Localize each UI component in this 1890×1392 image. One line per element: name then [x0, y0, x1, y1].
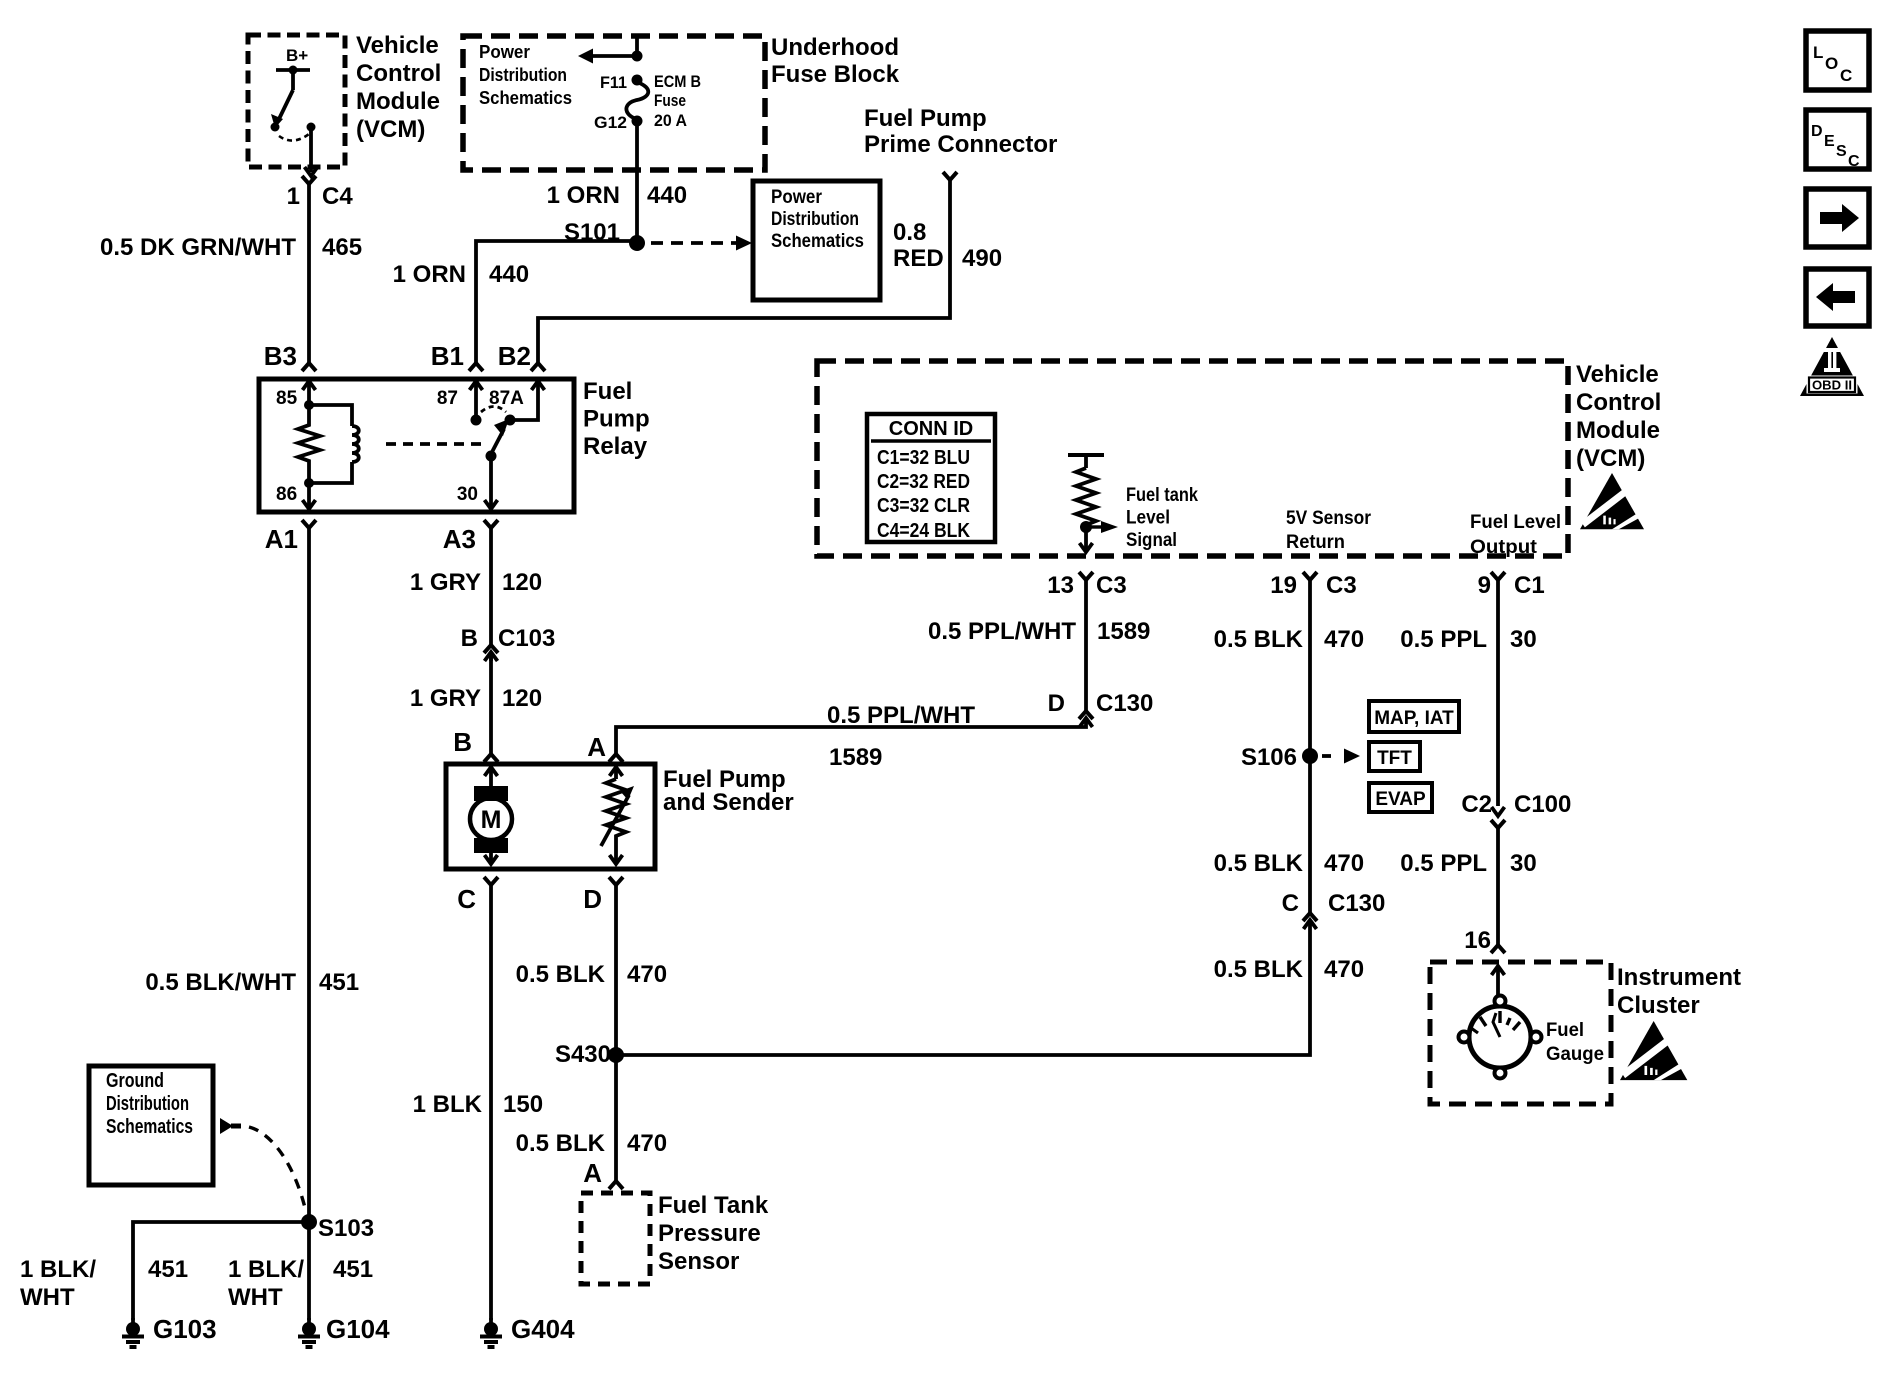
svg-text:0.5 BLK: 0.5 BLK — [1214, 850, 1304, 877]
svg-text:87A: 87A — [489, 388, 524, 409]
svg-text:Fuse Block: Fuse Block — [771, 61, 900, 88]
svg-text:TFT: TFT — [1377, 748, 1412, 769]
label 1 BLK/WHT 451 (right) — [228, 1256, 373, 1311]
connector fork 19 C3 — [1303, 572, 1317, 580]
svg-text:19: 19 — [1270, 572, 1297, 599]
label B2 — [498, 341, 531, 371]
wire 0.5 BLK 470 (S430 to C C130) — [616, 920, 1310, 1055]
connector fork A1 — [302, 520, 316, 528]
svg-text:1589: 1589 — [829, 744, 882, 771]
label 86 — [276, 484, 297, 505]
power distribution schematics text — [771, 187, 864, 252]
svg-text:C3=32 CLR: C3=32 CLR — [877, 495, 970, 517]
svg-text:Fuel Pump: Fuel Pump — [864, 105, 987, 132]
relay pin 85 arrow — [303, 381, 316, 405]
connector fork A3 — [484, 520, 498, 528]
inline connector B C103 — [484, 645, 498, 661]
connector fork B2 — [531, 363, 545, 371]
underhood fuse block title — [771, 34, 900, 88]
svg-text:S103: S103 — [318, 1215, 374, 1242]
svg-text:B1: B1 — [431, 341, 464, 371]
OBD II icon — [1800, 337, 1864, 396]
fuel tank pressure sensor title — [658, 1192, 769, 1275]
svg-text:C103: C103 — [498, 625, 555, 652]
svg-text:Pressure: Pressure — [658, 1220, 761, 1247]
connector fork pin 16 — [1491, 945, 1505, 953]
wire into fuse from top — [635, 36, 639, 58]
svg-text:G12: G12 — [594, 113, 627, 132]
B+ label — [286, 46, 308, 65]
svg-text:C130: C130 — [1096, 690, 1153, 717]
inline connector D C130 — [1079, 711, 1093, 727]
label 1 BLK/WHT 451 (left) — [20, 1256, 188, 1311]
svg-text:120: 120 — [502, 685, 542, 712]
relay switch blade (30 to 87A) — [486, 415, 516, 462]
svg-text:D: D — [583, 884, 602, 914]
relay coil resistor (85-86) — [298, 400, 320, 488]
label 87 — [437, 388, 458, 409]
svg-text:451: 451 — [333, 1256, 373, 1283]
connector fork D at fuel pump — [609, 877, 623, 885]
label 30 — [457, 484, 478, 505]
svg-text:C: C — [1840, 66, 1852, 85]
svg-text:D: D — [1811, 123, 1823, 140]
connector fork B3 — [302, 363, 316, 371]
pump pin A arrow — [610, 767, 623, 779]
wire 0.5 BLK/WHT 451 — [307, 528, 311, 1222]
svg-text:C130: C130 — [1328, 890, 1385, 917]
fuse name ECM B Fuse 20 A — [654, 72, 701, 130]
connector fork B1 — [469, 363, 483, 371]
wire 0.5 PPL/WHT 1589 (horizontal) — [616, 719, 1086, 754]
relay title — [583, 378, 650, 460]
svg-text:A: A — [583, 1158, 602, 1188]
fuel gauge — [1459, 996, 1542, 1079]
ground G103 — [122, 1318, 144, 1347]
forward arrow icon — [1806, 189, 1869, 247]
svg-text:470: 470 — [627, 1130, 667, 1157]
splice S101 — [629, 235, 645, 251]
label G404 — [511, 1314, 575, 1344]
svg-text:F11: F11 — [600, 73, 627, 92]
label S103 — [318, 1215, 374, 1242]
wire 1 ORN 440 (S101 to relay B1) — [476, 241, 637, 363]
label 0.5 DK GRN/WHT 465 — [100, 234, 362, 261]
label C (pump pin) — [457, 884, 476, 914]
svg-text:B2: B2 — [498, 341, 531, 371]
svg-text:0.5 PPL/WHT: 0.5 PPL/WHT — [928, 618, 1076, 645]
svg-text:30: 30 — [1510, 626, 1537, 653]
svg-text:C: C — [1282, 890, 1299, 917]
connector fork 9 C1 — [1491, 572, 1505, 580]
splice S106 — [1302, 748, 1318, 764]
svg-text:30: 30 — [457, 484, 478, 505]
EVAP reference box — [1369, 783, 1432, 812]
wire 0.5 BLK 470 (pump D to S430) — [614, 885, 618, 1181]
pump pin B arrow — [485, 767, 498, 787]
ESD symbol at instrument cluster — [1620, 1021, 1687, 1080]
svg-text:1 BLK: 1 BLK — [413, 1091, 483, 1118]
svg-text:B+: B+ — [286, 46, 308, 65]
svg-text:5V Sensor: 5V Sensor — [1286, 508, 1372, 529]
power distribution schematics box — [753, 181, 880, 300]
splice S103 — [301, 1214, 317, 1230]
wire 0.5 BLK 470 (C130 to VCM 19 C3) — [1308, 580, 1312, 913]
cluster pin 16 arrow — [1492, 966, 1505, 1000]
svg-text:WHT: WHT — [20, 1284, 75, 1311]
svg-text:Fuel: Fuel — [1546, 1020, 1584, 1041]
svg-text:EVAP: EVAP — [1375, 789, 1426, 810]
label S430 — [555, 1041, 611, 1068]
svg-text:20 A: 20 A — [654, 111, 687, 130]
label 0.5 BLK/WHT 451 — [145, 969, 359, 996]
svg-text:9: 9 — [1478, 572, 1491, 599]
MAP, IAT reference box — [1369, 701, 1459, 732]
connector fork B at fuel pump — [484, 754, 498, 762]
svg-text:470: 470 — [1324, 850, 1364, 877]
svg-text:87: 87 — [437, 388, 458, 409]
connector fork A at pressure sensor — [609, 1181, 623, 1189]
svg-text:E: E — [1824, 133, 1835, 150]
svg-text:S106: S106 — [1241, 744, 1297, 771]
vehicle control module (VCM) box, right — [817, 361, 1568, 556]
label 0.5 BLK 470 (above S106) — [1214, 626, 1364, 653]
ESD symbol at VCM — [1580, 473, 1644, 529]
svg-text:Fuse: Fuse — [654, 91, 686, 110]
instrument cluster box — [1430, 962, 1611, 1104]
relay coil winding (parallel branch) — [309, 405, 359, 483]
svg-text:A3: A3 — [443, 524, 476, 554]
ground G404 — [480, 1318, 502, 1347]
ground G104 — [298, 1318, 320, 1347]
svg-text:Signal: Signal — [1126, 530, 1177, 551]
svg-text:Sensor: Sensor — [658, 1248, 739, 1275]
label 1 ORN 440 (lower) — [393, 261, 529, 288]
relay pin 86 arrow — [303, 483, 316, 509]
svg-text:1 BLK/: 1 BLK/ — [228, 1256, 304, 1283]
svg-text:86: 86 — [276, 484, 297, 505]
wire 1 GRY 120 (upper) — [489, 528, 493, 645]
relay 87A to B2 wire — [510, 381, 545, 420]
svg-text:CONN ID: CONN ID — [889, 418, 973, 440]
svg-text:490: 490 — [962, 245, 1002, 272]
fuel pump motor M — [470, 786, 512, 853]
label 9 C1 — [1478, 572, 1545, 599]
label 0.5 PPL 30 (upper) — [1400, 626, 1536, 653]
relay actuation dashed link — [386, 442, 484, 446]
svg-text:B: B — [461, 625, 478, 652]
label 1 GRY 120 (upper) — [410, 569, 542, 596]
fuse F11 terminal — [632, 75, 643, 86]
label S101 — [564, 219, 620, 246]
svg-text:Fuel tank: Fuel tank — [1126, 485, 1198, 506]
svg-text:Power: Power — [479, 42, 530, 62]
fuel tank pressure sensor box — [581, 1193, 650, 1284]
svg-text:0.5 BLK: 0.5 BLK — [1214, 956, 1304, 983]
svg-text:Distribution: Distribution — [106, 1093, 189, 1115]
svg-text:Prime Connector: Prime Connector — [864, 131, 1057, 158]
svg-text:RED: RED — [893, 245, 944, 272]
wire 1 GRY 120 (lower) — [489, 655, 493, 754]
pump pin C arrow — [485, 853, 498, 864]
svg-text:C: C — [457, 884, 476, 914]
fuel level sender variable resistor — [601, 779, 634, 853]
svg-text:0.5 DK GRN/WHT: 0.5 DK GRN/WHT — [100, 234, 296, 261]
svg-text:WHT: WHT — [228, 1284, 283, 1311]
battery feed switch inside VCM — [271, 66, 316, 141]
svg-text:0.5 PPL/WHT: 0.5 PPL/WHT — [827, 702, 975, 729]
svg-text:0.8: 0.8 — [893, 219, 926, 246]
pump pin D arrow — [610, 853, 623, 864]
wire 0.5 DK GRN/WHT 465 — [307, 184, 311, 363]
back arrow icon — [1806, 269, 1869, 326]
label 0.5 BLK 470 (below C130) — [1214, 956, 1364, 983]
connector fork 13 C3 — [1079, 572, 1093, 580]
svg-text:150: 150 — [503, 1091, 543, 1118]
svg-text:Return: Return — [1286, 532, 1345, 553]
wire 0.5 PPL 30 (C100 to cluster pin 16) — [1496, 828, 1500, 945]
fuel tank level signal label — [1126, 485, 1198, 551]
fuel pump and sender box — [446, 764, 655, 869]
svg-text:L: L — [1813, 43, 1823, 62]
svg-text:1589: 1589 — [1097, 618, 1150, 645]
wire 0.8 RED 490 — [538, 180, 950, 363]
VCM title, right — [1576, 361, 1661, 472]
inline connector C2 C100 — [1491, 807, 1505, 828]
svg-text:MAP, IAT: MAP, IAT — [1374, 708, 1454, 729]
label 19 C3 — [1270, 572, 1356, 599]
label 87A — [489, 388, 524, 409]
label A1 — [265, 524, 298, 554]
label 1 BLK 150 — [413, 1091, 543, 1118]
VCM title, top-left — [356, 32, 441, 143]
dashed reference arrow from S101 to power distribution schematics — [651, 236, 752, 251]
power distribution schematics note in fuse block — [479, 42, 572, 108]
svg-text:Level: Level — [1126, 508, 1170, 529]
svg-text:G104: G104 — [326, 1314, 390, 1344]
label B1 — [431, 341, 464, 371]
label 85 — [276, 388, 298, 409]
wire 1 BLK/WHT 451 (S103 to G104) — [307, 1222, 311, 1320]
label 0.8 RED 490 — [893, 219, 1002, 272]
svg-text:Vehicle: Vehicle — [1576, 361, 1659, 388]
svg-text:16: 16 — [1464, 927, 1491, 954]
label G104 — [326, 1314, 390, 1344]
svg-text:Underhood: Underhood — [771, 34, 899, 61]
svg-text:C2=32 RED: C2=32 RED — [877, 471, 970, 493]
svg-text:OBD II: OBD II — [1812, 379, 1852, 393]
svg-text:Schematics: Schematics — [106, 1116, 193, 1138]
svg-text:Module: Module — [1576, 417, 1660, 444]
svg-text:G404: G404 — [511, 1314, 575, 1344]
svg-text:(VCM): (VCM) — [1576, 445, 1645, 472]
svg-text:0.5 PPL: 0.5 PPL — [1400, 626, 1487, 653]
svg-text:1 GRY: 1 GRY — [410, 569, 481, 596]
svg-text:(VCM): (VCM) — [356, 116, 425, 143]
svg-text:S430: S430 — [555, 1041, 611, 1068]
label 0.5 BLK 470 (above C130) — [1214, 850, 1364, 877]
svg-text:1 BLK/: 1 BLK/ — [20, 1256, 96, 1283]
svg-text:85: 85 — [276, 388, 298, 409]
label 0.5 BLK 470 (lower) — [516, 1130, 667, 1157]
dashed reference line to S103 — [249, 1127, 306, 1212]
wire 0.5 PPL/WHT 1589 (vertical to VCM 13 C3) — [1084, 580, 1088, 711]
svg-text:S: S — [1836, 143, 1847, 160]
svg-text:30: 30 — [1510, 850, 1537, 877]
label 1 GRY 120 (lower) — [410, 685, 542, 712]
svg-text:Instrument: Instrument — [1617, 964, 1741, 991]
svg-text:M: M — [481, 806, 502, 834]
svg-text:Vehicle: Vehicle — [356, 32, 439, 59]
svg-text:C1: C1 — [1514, 572, 1545, 599]
svg-text:0.5 BLK: 0.5 BLK — [516, 1130, 606, 1157]
svg-text:C: C — [1848, 153, 1860, 170]
label B (pump pin) — [453, 727, 472, 757]
svg-text:and Sender: and Sender — [663, 789, 794, 816]
svg-text:A: A — [587, 732, 606, 762]
svg-text:451: 451 — [319, 969, 359, 996]
label D C130 — [1048, 690, 1154, 717]
svg-text:B3: B3 — [264, 341, 297, 371]
label A3 — [443, 524, 476, 554]
svg-text:C4=24 BLK: C4=24 BLK — [877, 520, 970, 542]
svg-text:Output: Output — [1470, 537, 1538, 558]
svg-text:Distribution: Distribution — [771, 209, 859, 230]
VCM output arrow to pin 1 — [305, 127, 318, 176]
svg-text:1 ORN: 1 ORN — [547, 182, 620, 209]
svg-text:0.5 BLK/WHT: 0.5 BLK/WHT — [145, 969, 296, 996]
svg-text:ECM B: ECM B — [654, 72, 701, 91]
svg-text:Power: Power — [771, 187, 823, 208]
svg-text:470: 470 — [1324, 956, 1364, 983]
svg-text:Pump: Pump — [583, 406, 650, 433]
vehicle control module (VCM) box, top-left — [248, 35, 345, 167]
connector fork C at fuel pump — [484, 877, 498, 885]
svg-text:C4: C4 — [322, 183, 353, 210]
reference arrow to power distribution schematics (left) — [578, 49, 637, 64]
ground distribution schematics box — [89, 1066, 213, 1185]
label G103 — [153, 1314, 217, 1344]
svg-text:0.5 BLK: 0.5 BLK — [1214, 626, 1304, 653]
label 0.5 PPL/WHT 1589 (vertical) — [928, 618, 1150, 645]
svg-text:Control: Control — [356, 60, 441, 87]
ground distribution schematics text — [106, 1070, 193, 1138]
svg-text:C2: C2 — [1461, 791, 1492, 818]
svg-text:Cluster: Cluster — [1617, 992, 1700, 1019]
fuel pump relay box — [259, 379, 574, 512]
svg-text:451: 451 — [148, 1256, 188, 1283]
svg-text:A1: A1 — [265, 524, 298, 554]
wire 0.5 PPL 30 (VCM to C100) — [1496, 580, 1500, 806]
splice S430 — [608, 1047, 624, 1063]
TFT reference box — [1369, 742, 1420, 771]
inline connector C C130 — [1303, 913, 1317, 929]
svg-text:1 GRY: 1 GRY — [410, 685, 481, 712]
label S106 — [1241, 744, 1297, 771]
5V sensor return label — [1286, 508, 1372, 553]
svg-text:13: 13 — [1047, 572, 1074, 599]
svg-text:Schematics: Schematics — [479, 88, 572, 108]
relay pin 87 stub — [470, 381, 483, 426]
svg-text:C3: C3 — [1096, 572, 1127, 599]
wire 1 BLK 150 — [489, 885, 493, 1320]
fuel tank level signal resistor in VCM — [1068, 455, 1118, 552]
connector fork A at fuel pump — [609, 754, 623, 762]
svg-text:120: 120 — [502, 569, 542, 596]
svg-text:0.5 BLK: 0.5 BLK — [516, 961, 606, 988]
label 0.5 PPL 30 (lower) — [1400, 850, 1536, 877]
svg-text:Fuel Tank: Fuel Tank — [658, 1192, 769, 1219]
label 0.5 PPL/WHT 1589 (horizontal) — [827, 702, 975, 771]
label 1 ORN 440 (upper) — [547, 182, 687, 209]
svg-text:465: 465 — [322, 234, 362, 261]
label 16 — [1464, 927, 1491, 954]
instrument cluster title — [1617, 964, 1741, 1019]
label C C130 — [1282, 890, 1386, 917]
svg-text:Module: Module — [356, 88, 440, 115]
svg-text:B: B — [453, 727, 472, 757]
fuel pump and sender title — [663, 766, 794, 816]
svg-text:D: D — [1048, 690, 1065, 717]
label 0.5 BLK 470 (upper) — [516, 961, 667, 988]
svg-text:O: O — [1825, 54, 1838, 73]
svg-text:C3: C3 — [1326, 572, 1357, 599]
label A (sensor pin) — [583, 1158, 602, 1188]
fuel gauge label — [1546, 1020, 1604, 1065]
label B3 — [264, 341, 297, 371]
dashed reference arrow from S106 — [1322, 749, 1360, 764]
svg-text:Fuel: Fuel — [583, 378, 632, 405]
reference arrow from ground distribution box — [220, 1118, 241, 1134]
wire 1 ORN 440 (fuse G12 to S101) — [635, 121, 639, 243]
svg-text:0.5 PPL: 0.5 PPL — [1400, 850, 1487, 877]
svg-text:Gauge: Gauge — [1546, 1044, 1604, 1065]
svg-text:1 ORN: 1 ORN — [393, 261, 466, 288]
svg-text:C100: C100 — [1514, 791, 1571, 818]
fuse G12 terminal — [632, 116, 643, 127]
svg-text:470: 470 — [1324, 626, 1364, 653]
connector C4 pin 1 (female fork) — [302, 176, 316, 184]
svg-text:Ground: Ground — [106, 1070, 164, 1092]
svg-text:C1=32 BLU: C1=32 BLU — [877, 447, 970, 469]
svg-text:Distribution: Distribution — [479, 65, 567, 85]
svg-text:G103: G103 — [153, 1314, 217, 1344]
junction above fuse — [632, 51, 643, 62]
label B C103 — [461, 625, 556, 652]
fuel level output label — [1470, 512, 1561, 558]
svg-text:Relay: Relay — [583, 433, 648, 460]
label C2 C100 — [1461, 791, 1571, 818]
relay pin 30 arrow — [485, 456, 498, 509]
svg-text:Control: Control — [1576, 389, 1661, 416]
svg-text:Schematics: Schematics — [771, 231, 864, 252]
pin 1 / C4 labels — [287, 183, 354, 210]
CONN ID table — [867, 414, 995, 542]
wire 1 BLK/WHT 451 (S103 to G103) — [133, 1222, 309, 1320]
fuse F11 ECM B 20A element (squiggle) — [626, 82, 648, 119]
LOC icon — [1806, 31, 1869, 90]
svg-text:440: 440 — [489, 261, 529, 288]
svg-text:440: 440 — [647, 182, 687, 209]
label D (pump pin) — [583, 884, 602, 914]
svg-text:1: 1 — [287, 183, 300, 210]
fuel pump prime connector (female fork) — [943, 172, 957, 180]
label A (pump pin) — [587, 732, 606, 762]
label 13 C3 — [1047, 572, 1126, 599]
svg-text:470: 470 — [627, 961, 667, 988]
svg-text:Fuel Level: Fuel Level — [1470, 512, 1561, 533]
relay 87-87A dashed arc — [481, 407, 506, 413]
